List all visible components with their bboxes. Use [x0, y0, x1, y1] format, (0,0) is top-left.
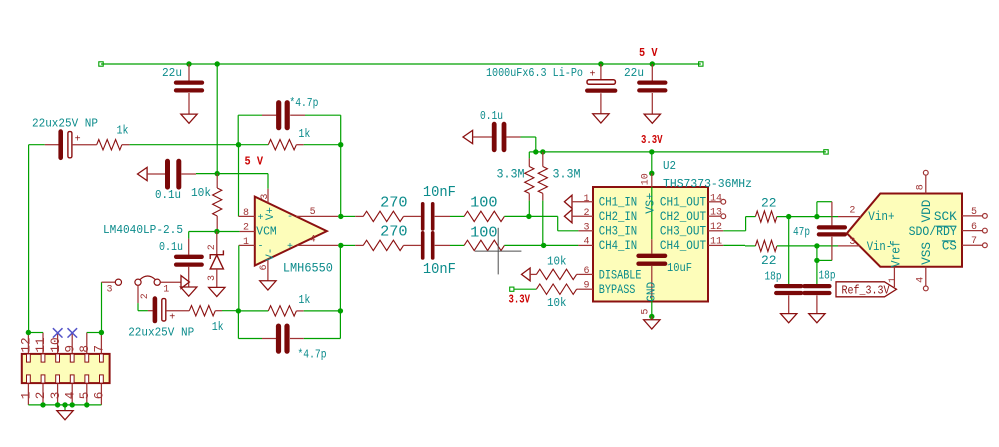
label 10k (BYPASS)	[547, 296, 567, 310]
svg-text:V-: V-	[265, 248, 277, 261]
svg-text:100: 100	[470, 195, 498, 211]
wire CH3 route	[529, 216, 579, 230]
capacitor *4.7p (bottom feedback)	[262, 326, 304, 351]
connector top pins 12-7	[19, 333, 107, 363]
label THS7373-36MHz	[663, 177, 752, 191]
svg-text:10: 10	[641, 173, 652, 185]
U2 pin 3 CH3_IN	[578, 223, 593, 234]
svg-text:3.3M: 3.3M	[497, 167, 525, 181]
net stub 3.3V (BYPASS)	[510, 287, 537, 291]
ground under op-amp	[260, 281, 276, 290]
svg-text:4: 4	[310, 235, 316, 246]
node summing - input	[236, 308, 241, 313]
node 47p bottom	[814, 258, 819, 263]
svg-text:SCK: SCK	[934, 210, 957, 224]
svg-text:2: 2	[243, 223, 249, 234]
cursor crosshair	[475, 228, 522, 275]
svg-text:3: 3	[48, 392, 63, 400]
capacitor 18p (left)	[776, 217, 801, 314]
resistor 100 (top)	[464, 211, 504, 221]
wire VCM node	[189, 232, 240, 239]
ground under 0.1u reference	[181, 287, 197, 296]
svg-text:SDO/RDY: SDO/RDY	[909, 225, 958, 239]
connector bottom pins 1-6	[19, 375, 107, 405]
wire feedback to output top	[340, 145, 342, 217]
ADC pin 5 SCK	[962, 207, 987, 218]
IC U2 THS7373 body	[593, 187, 708, 302]
svg-text:*4.7p: *4.7p	[298, 348, 327, 362]
svg-text:14: 14	[710, 193, 722, 204]
svg-text:10nF: 10nF	[423, 185, 456, 201]
label 0.1u (3.3V)	[480, 109, 503, 123]
svg-text:1: 1	[19, 392, 34, 400]
capacitor 22u (top-right)	[639, 61, 665, 114]
svg-text:7: 7	[971, 236, 977, 247]
svg-text:22: 22	[761, 253, 777, 268]
U2 pin 5 GND	[641, 309, 655, 320]
wire opamp output bottom	[341, 244, 355, 246]
op-amp pin 2 VCM	[240, 223, 255, 234]
svg-text:CH1_IN: CH1_IN	[599, 195, 637, 210]
wire VS+ from rail	[651, 152, 653, 173]
supply label 3.3V (BYPASS)	[509, 292, 531, 306]
svg-text:GND: GND	[645, 282, 659, 302]
supply label 5V (top-right)	[639, 46, 658, 60]
svg-text:22ux25V NP: 22ux25V NP	[128, 325, 194, 339]
U2 internal label GND	[645, 282, 659, 302]
svg-text:BYPASS: BYPASS	[599, 282, 636, 297]
capacitor 18p (right)	[804, 260, 829, 313]
svg-text:13: 13	[710, 208, 722, 219]
U2 internal label VS+	[644, 193, 658, 214]
svg-text:8: 8	[916, 184, 927, 190]
node rail right	[540, 149, 545, 154]
svg-text:1000uFx6.3 Li-Po: 1000uFx6.3 Li-Po	[486, 67, 583, 80]
svg-text:1: 1	[163, 284, 169, 295]
svg-text:270: 270	[380, 224, 408, 240]
supply arrow CH2_IN	[564, 210, 572, 223]
wire 100 bottom to node	[504, 244, 543, 246]
svg-text:1k: 1k	[298, 128, 310, 141]
svg-text:U2: U2	[663, 159, 676, 173]
svg-text:12: 12	[19, 337, 34, 352]
wire 22 top to Vin+	[777, 216, 817, 218]
svg-text:CH1_OUT: CH1_OUT	[660, 195, 706, 210]
ADC pin 8 VDD	[916, 170, 929, 193]
U2 pin 6 DISABLE	[578, 266, 593, 277]
svg-text:+: +	[75, 134, 81, 145]
ground under 22u top-right	[644, 114, 660, 123]
svg-text:CH2_OUT: CH2_OUT	[660, 209, 706, 224]
svg-text:3.3V: 3.3V	[509, 292, 531, 306]
svg-text:*4.7p: *4.7p	[289, 96, 318, 110]
ground under U2	[644, 320, 660, 329]
label 22ux25V NP (top)	[32, 117, 98, 131]
svg-text:22u: 22u	[624, 66, 644, 80]
ADC pin 1 Vref	[888, 267, 899, 287]
svg-text:-: -	[258, 242, 264, 253]
wire to 100 top	[450, 215, 464, 217]
supply arrow DISABLE	[522, 268, 531, 281]
label 10k (DISABLE)	[547, 254, 567, 268]
svg-text:5: 5	[310, 207, 316, 218]
ground under 1000uF	[593, 114, 609, 123]
capacitor 22u (top-left)	[176, 61, 202, 114]
svg-text:9: 9	[584, 281, 590, 292]
ADC pin 7 CS	[962, 236, 987, 248]
U2 pin 10 VS+	[641, 173, 652, 239]
svg-text:CS: CS	[942, 240, 957, 254]
resistor 10k (BYPASS)	[536, 284, 578, 294]
label 10uF	[667, 261, 692, 275]
label *4.7p (top)	[289, 96, 318, 110]
svg-text:1: 1	[888, 277, 899, 283]
svg-text:+: +	[590, 70, 596, 81]
label 18p (left)	[765, 270, 782, 283]
ground under 18p left	[781, 314, 797, 323]
supply label 3.3V (rail)	[641, 133, 663, 147]
node VCM reference	[214, 229, 219, 234]
svg-text:11: 11	[710, 237, 722, 248]
svg-text:10uF: 10uF	[667, 261, 692, 275]
svg-text:1: 1	[243, 237, 249, 248]
wire connector pin12-pin11 jog	[28, 332, 43, 334]
node VS+ stub	[649, 171, 654, 176]
svg-text:CH4_OUT: CH4_OUT	[660, 238, 706, 253]
resistor 1k (top input)	[97, 140, 130, 150]
label 0.1u (5V bypass)	[155, 188, 181, 202]
wire Vin- into ADC	[817, 245, 838, 247]
svg-text:LMH6550: LMH6550	[283, 261, 333, 276]
resistor 270 (bottom)	[355, 240, 411, 250]
svg-text:11: 11	[33, 337, 48, 352]
resistor 3.3M (left)	[525, 152, 536, 217]
svg-text:5: 5	[641, 309, 652, 315]
svg-text:VS+: VS+	[644, 193, 658, 214]
resistor 22 (bottom)	[755, 240, 777, 251]
svg-text:12: 12	[710, 222, 722, 233]
U2 pin 4 CH4_IN	[578, 237, 593, 248]
label 18p (right)	[819, 270, 836, 283]
svg-text:3: 3	[207, 275, 218, 281]
wire 5V vertical	[215, 61, 220, 173]
svg-text:47p: 47p	[793, 226, 810, 239]
ADC pin 3 Vin-	[838, 237, 860, 248]
node connector pin7	[99, 330, 104, 335]
svg-text:2: 2	[849, 205, 855, 216]
svg-text:DISABLE: DISABLE	[599, 268, 642, 283]
svg-text:THS7373-36MHz: THS7373-36MHz	[663, 177, 752, 191]
node 5V junction	[215, 171, 220, 176]
node feedback top right	[338, 142, 343, 147]
svg-text:CH3_IN: CH3_IN	[599, 224, 637, 239]
label 100 (top)	[470, 195, 498, 211]
wire 22 bottom to Vin-	[777, 245, 817, 247]
ADC internal labels	[867, 200, 957, 268]
ground under connector	[57, 411, 73, 420]
svg-text:VDD: VDD	[920, 200, 934, 223]
label LMH6550	[283, 261, 333, 276]
svg-text:3: 3	[260, 194, 271, 200]
svg-text:22ux25V NP: 22ux25V NP	[32, 117, 98, 131]
op-amp pin 3 V+	[260, 189, 271, 203]
wire opamp output top	[341, 215, 355, 217]
ADC pin 6 SDO	[962, 222, 987, 233]
resistor 3.3M (right)	[538, 152, 547, 246]
op-amp pin 5 output	[296, 207, 338, 218]
U2 pin 2 CH2_IN	[572, 208, 593, 219]
svg-text:0.1u: 0.1u	[480, 109, 503, 123]
wire 0.1u to rail	[521, 137, 536, 152]
ground under 22u top-left	[181, 114, 197, 123]
label 22ux25V NP (bottom)	[128, 325, 194, 339]
wire feedback top loop	[238, 115, 341, 145]
svg-text:10k: 10k	[547, 296, 567, 310]
capacitor 1000uFx6.3 Li-Po	[587, 61, 615, 113]
svg-text:3.3M: 3.3M	[553, 167, 581, 181]
svg-text:7: 7	[92, 345, 107, 353]
svg-text:6: 6	[92, 392, 107, 400]
wire connector pin7 to switch	[102, 282, 116, 332]
svg-text:4: 4	[584, 237, 590, 248]
svg-text:1k: 1k	[212, 321, 224, 334]
supply arrow CH1_IN	[564, 195, 572, 208]
capacitor 22ux25V NP (bottom input)	[148, 299, 189, 324]
wire switch pin1 to supply arrow	[160, 281, 181, 283]
svg-text:VCM: VCM	[256, 226, 276, 239]
capacitor 0.1u (reference)	[176, 239, 202, 287]
capacitor *4.7p (top feedback)	[262, 103, 305, 128]
label 22 (bottom)	[761, 253, 777, 268]
label 270 (bottom)	[380, 224, 408, 240]
wire connector pin8-pin7 jog	[87, 332, 102, 334]
svg-text:LM4040LP-2.5: LM4040LP-2.5	[103, 223, 183, 237]
connector J1 body	[22, 354, 110, 383]
label 3.3M (left)	[497, 167, 525, 181]
svg-text:0.1u: 0.1u	[155, 188, 181, 202]
svg-text:18p: 18p	[819, 270, 836, 283]
ground under zener	[209, 287, 225, 296]
label 22 (top)	[761, 195, 777, 210]
wire 3.3V rail	[536, 150, 828, 154]
capacitor 0.1u (5V bypass)	[138, 161, 197, 187]
capacitor 0.1u (3.3V bypass)	[463, 124, 521, 150]
wire feedback bottom loop	[238, 245, 340, 338]
node rail left	[533, 149, 538, 154]
U2 pin 12 CH3_OUT	[708, 222, 723, 233]
label *4.7p (bottom)	[298, 348, 327, 362]
resistor 22 (top)	[755, 211, 777, 222]
node CH4 junction	[541, 243, 546, 248]
op-amp internal labels	[256, 207, 293, 261]
svg-text:5 V: 5 V	[639, 46, 658, 60]
resistor 10k (DISABLE)	[530, 269, 578, 279]
op-amp pin 8	[239, 145, 255, 219]
label 10nF (top)	[423, 185, 456, 201]
label 1k (top feedback)	[298, 128, 310, 141]
svg-text:4: 4	[62, 392, 77, 400]
svg-text:22u: 22u	[162, 66, 182, 80]
wire 5V horizontal	[196, 174, 268, 189]
label 1k (top input)	[117, 125, 129, 138]
resistor 100 (bottom)	[464, 240, 504, 250]
op-amp pin 1	[239, 237, 255, 311]
svg-text:+: +	[169, 313, 175, 324]
wire top 5V rail	[99, 62, 703, 66]
label 10k (vertical)	[191, 186, 211, 200]
ADC pin 4 VSS	[916, 267, 929, 291]
svg-text:4: 4	[916, 277, 927, 283]
svg-text:5 V: 5 V	[245, 155, 264, 169]
svg-text:1: 1	[584, 194, 590, 205]
node Vin+ right	[814, 214, 819, 219]
svg-text:CH2_IN: CH2_IN	[599, 209, 637, 224]
capacitor 47p	[817, 202, 845, 261]
wire to 10nF top	[0, 0, 1, 1]
no-connect X pin9	[68, 328, 78, 337]
svg-text:+: +	[258, 213, 264, 224]
svg-text:8: 8	[77, 345, 92, 353]
U2 internal pin labels	[599, 195, 706, 298]
svg-text:6: 6	[259, 264, 270, 270]
label 100 (bottom)	[470, 226, 498, 242]
ADC pin 2 Vin+	[838, 205, 861, 216]
U2 pin 11 CH4_OUT	[708, 237, 723, 248]
label 22u (top-left)	[162, 66, 182, 80]
svg-text:5: 5	[971, 207, 977, 218]
node feedback bottom right	[338, 308, 343, 313]
label 1k (bottom feedback)	[298, 294, 310, 307]
svg-text:2: 2	[33, 392, 48, 400]
capacitor 10uF (internal)	[639, 239, 666, 316]
svg-text:VSS: VSS	[920, 242, 934, 265]
label 22u (top-right)	[624, 66, 644, 80]
ground under 18p right	[809, 314, 825, 323]
label 270 (top)	[380, 195, 408, 211]
node summing + input	[236, 142, 241, 147]
svg-text:2: 2	[140, 293, 151, 299]
label 3.3M (right)	[553, 167, 581, 181]
label LM4040LP-2.5	[103, 223, 183, 237]
svg-text:CH4_IN: CH4_IN	[599, 238, 637, 253]
svg-text:3: 3	[849, 237, 855, 248]
wire CH3_OUT route	[723, 217, 755, 231]
svg-text:Vin-: Vin-	[867, 240, 892, 254]
capacitor 22ux25V NP (top input)	[45, 132, 97, 158]
wire 100 top to node	[504, 215, 529, 217]
supply label 5V (opamp)	[245, 155, 264, 169]
capacitor 10nF (top)	[411, 204, 450, 229]
svg-text:Vin+: Vin+	[868, 210, 894, 224]
svg-text:3: 3	[107, 284, 113, 295]
svg-text:+: +	[287, 242, 293, 253]
svg-text:10k: 10k	[547, 254, 567, 268]
label 0.1u (reference)	[159, 240, 183, 254]
svg-text:10k: 10k	[191, 186, 211, 200]
node output top	[338, 214, 343, 219]
svg-text:2: 2	[584, 208, 590, 219]
resistor 1k (bottom input)	[189, 306, 238, 316]
IC ADC body	[847, 194, 962, 267]
svg-text:10nF: 10nF	[423, 262, 456, 278]
net label tag Ref_3.3V	[836, 282, 897, 298]
resistor 10k (vertical)	[213, 174, 222, 232]
node connector pin12	[26, 330, 31, 335]
op-amp pin 6 ground	[259, 259, 270, 280]
supply arrow (switch)	[181, 276, 189, 289]
svg-text:0.1u: 0.1u	[159, 240, 183, 254]
wire Vin+ into ADC	[817, 216, 838, 218]
svg-text:6: 6	[584, 266, 590, 277]
U2 pin 13 CH2_OUT	[708, 208, 726, 219]
wire left input branch	[29, 145, 45, 333]
svg-text:1k: 1k	[117, 125, 129, 138]
wire CH4 route	[544, 244, 579, 246]
svg-text:-: -	[287, 212, 293, 223]
svg-text:3.3V: 3.3V	[641, 133, 663, 147]
wire connector ground bus	[28, 402, 101, 410]
resistor 1k (top feedback)	[239, 140, 341, 150]
label U2	[663, 159, 676, 173]
label 10nF (bottom)	[423, 262, 456, 278]
op-amp pin 4 output	[297, 235, 338, 246]
node CH3 junction	[526, 214, 531, 219]
wire to 10nF bottom	[0, 0, 1, 1]
svg-text:270: 270	[380, 195, 408, 211]
svg-text:10: 10	[48, 337, 63, 352]
diode LM4040 zener	[207, 232, 224, 288]
svg-text:3: 3	[584, 223, 590, 234]
svg-text:22: 22	[761, 195, 777, 210]
label 47p	[793, 226, 810, 239]
switch S1	[107, 276, 170, 299]
label 1k (bottom input)	[212, 321, 224, 334]
op-amp U1 LMH6550 body	[255, 197, 327, 266]
U2 pin 1 CH1_IN	[572, 194, 593, 205]
node output bottom	[338, 243, 343, 248]
svg-text:9: 9	[62, 345, 77, 353]
wire CH4_OUT route	[723, 244, 755, 247]
capacitor 10nF (bottom)	[411, 233, 450, 258]
svg-text:18p: 18p	[765, 270, 782, 283]
svg-text:6: 6	[971, 222, 977, 233]
wire to 100 bottom	[450, 244, 464, 246]
svg-text:Vref: Vref	[889, 240, 903, 267]
svg-text:1k: 1k	[298, 294, 310, 307]
node VS+ rail	[649, 149, 654, 154]
svg-text:CH3_OUT: CH3_OUT	[660, 224, 706, 239]
svg-text:100: 100	[470, 226, 498, 242]
svg-text:Ref_3.3V: Ref_3.3V	[842, 285, 890, 298]
svg-text:V+: V+	[265, 207, 277, 220]
wire input to summing node	[130, 144, 239, 146]
U2 pin 14 CH1_OUT	[708, 193, 726, 204]
wire switch pin2 down	[138, 285, 148, 310]
label 1000uFx6.3 Li-Po	[486, 67, 583, 80]
node Vin- junction	[814, 243, 819, 248]
resistor 1k (bottom feedback)	[238, 306, 340, 316]
svg-text:8: 8	[243, 208, 249, 219]
no-connect X pin10	[53, 328, 63, 337]
U2 pin 9 BYPASS	[578, 281, 593, 292]
svg-text:5: 5	[77, 392, 92, 400]
svg-text:2: 2	[207, 244, 218, 250]
resistor 270 (top)	[355, 211, 411, 221]
node Vin+ left	[786, 214, 791, 219]
